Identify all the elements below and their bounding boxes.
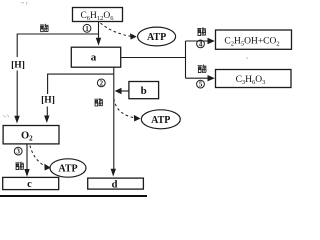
svg-text:[H]: [H]	[11, 60, 25, 70]
svg-text:C2H5OH+CO2: C2H5OH+CO2	[224, 36, 279, 47]
svg-text:1: 1	[85, 25, 89, 33]
svg-text:[H]: [H]	[41, 96, 55, 106]
svg-text:C3H6O3: C3H6O3	[236, 75, 266, 86]
svg-text:3: 3	[16, 148, 20, 156]
svg-text:C6H12O6: C6H12O6	[80, 11, 114, 22]
svg-text:ATP: ATP	[151, 115, 170, 126]
svg-text:5: 5	[199, 81, 203, 89]
svg-text:O2: O2	[21, 131, 33, 143]
svg-text:a: a	[91, 52, 97, 64]
svg-text:ATP: ATP	[147, 32, 166, 43]
svg-text:ATP: ATP	[58, 164, 77, 175]
svg-text:b: b	[141, 85, 147, 97]
svg-text:4: 4	[199, 40, 203, 48]
svg-text:2: 2	[100, 79, 104, 87]
svg-text:d: d	[112, 179, 118, 190]
svg-text:c: c	[27, 179, 32, 190]
